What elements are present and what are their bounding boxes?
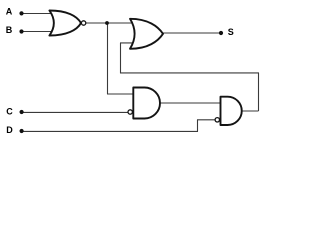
or-gate U2 body <box>130 19 163 49</box>
wire feedback horizontal <box>120 72 259 74</box>
wire NOR output to OR gate U2 top input <box>86 22 137 24</box>
and-gate U4 inverted input bubble <box>215 118 219 122</box>
node D terminal dot <box>20 129 24 133</box>
wire U3 output to U4 upper input <box>159 102 224 104</box>
wire S output <box>162 32 221 34</box>
node C terminal dot <box>20 110 24 114</box>
svg-text:D: D <box>6 125 13 135</box>
wire D to U4 bubble <box>197 119 215 121</box>
wire feedback vertical right <box>258 73 260 111</box>
wire A input <box>22 13 58 15</box>
nor-gate U1 output bubble <box>81 21 85 25</box>
wire feedback vertical left <box>120 43 122 73</box>
and-gate U3 inverted input bubble <box>128 110 132 114</box>
and-gate U3 body <box>133 88 160 119</box>
svg-text:S: S <box>228 27 234 37</box>
wire U4 output <box>241 110 259 112</box>
and-gate U4 body <box>221 97 242 125</box>
svg-text:C: C <box>6 107 13 117</box>
wire junction vertical down to U3 <box>107 23 109 94</box>
wire D input horizontal <box>22 130 198 132</box>
wire U2 lower input horizontal <box>120 42 138 44</box>
wire D vertical riser <box>197 120 199 132</box>
junction dot NOR output <box>105 21 109 25</box>
nor-gate U1 body <box>49 11 81 36</box>
node B terminal dot <box>19 29 23 33</box>
wire C input <box>22 111 129 113</box>
svg-text:A: A <box>6 6 13 16</box>
node S terminal dot <box>219 31 223 35</box>
wire U3 upper input horizontal <box>107 93 138 95</box>
wire B input <box>22 31 58 33</box>
node A terminal dot <box>19 11 23 15</box>
svg-text:B: B <box>6 25 13 35</box>
